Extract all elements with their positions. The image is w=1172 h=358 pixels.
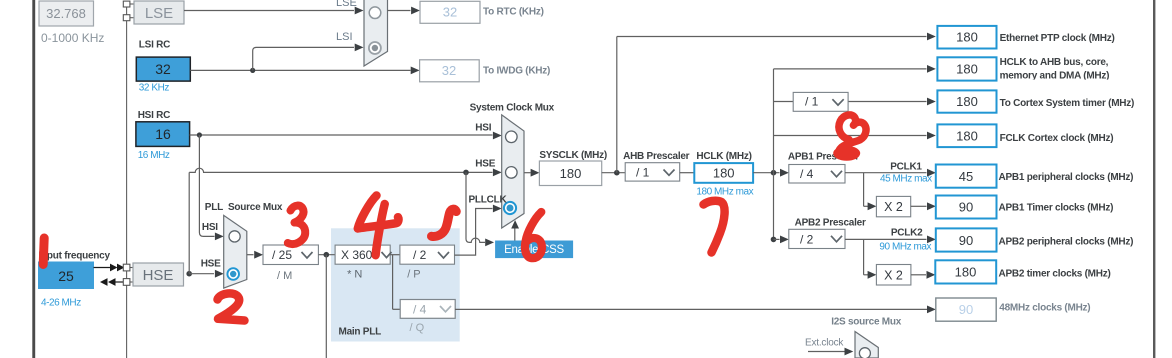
svg-text:X 2: X 2	[884, 268, 903, 282]
svg-text:Main PLL: Main PLL	[339, 327, 382, 338]
HSE box	[133, 263, 184, 286]
red annotation 4	[358, 196, 399, 256]
wire Ext.clock to I2S mux	[808, 348, 853, 356]
pin square OSC_IN	[123, 264, 130, 271]
svg-text:0-1000 KHz: 0-1000 KHz	[41, 31, 104, 45]
wire PLL mux to /M	[247, 251, 263, 259]
APB1 peripheral clocks box	[936, 165, 997, 188]
svg-text:X 2: X 2	[884, 200, 903, 214]
svg-text:32.768: 32.768	[46, 6, 86, 21]
wire *N to /P and down to /Q	[390, 255, 400, 310]
wire APB1 to PCLK1 box with X2 tap	[845, 169, 936, 210]
left panel border line	[32, 0, 35, 358]
svg-text:90 MHz max: 90 MHz max	[879, 242, 931, 253]
svg-text:APB2 timer clocks (MHz): APB2 timer clocks (MHz)	[999, 268, 1111, 279]
svg-text:32: 32	[442, 63, 456, 78]
svg-text:45: 45	[959, 169, 973, 184]
svg-text:/ 1: / 1	[636, 166, 650, 180]
svg-text:32: 32	[443, 5, 457, 20]
wire AHB to HCLK	[680, 172, 695, 174]
APB2 prescaler dropdown	[774, 229, 846, 248]
svg-text:HSI: HSI	[202, 222, 218, 233]
HSE input frequency box 25	[39, 262, 94, 289]
OSC_OUT double arrows	[100, 278, 123, 286]
PLL source mux	[224, 215, 247, 288]
wire LSE to RTC mux	[184, 7, 364, 15]
wire HCLK to APB1 with rail taps	[753, 69, 789, 242]
wire LSI RC output	[190, 44, 419, 75]
Main PLL panel	[331, 228, 460, 341]
svg-text:/ Q: / Q	[410, 322, 425, 334]
wire /M to *N with PLL feedback tap	[318, 252, 335, 358]
vertical pin rail wire	[126, 4, 128, 358]
svg-text:HCLK (MHz): HCLK (MHz)	[696, 151, 751, 162]
wire HSI to system clock mux	[190, 132, 502, 140]
pin square OSC32_OUT	[123, 15, 130, 21]
svg-text:PCLK1: PCLK1	[890, 161, 922, 172]
svg-text:I2S source Mux: I2S source Mux	[831, 317, 902, 328]
Enable CSS button	[495, 241, 573, 259]
To Cortex System timer box	[937, 90, 996, 112]
svg-text:PLLCLK: PLLCLK	[469, 195, 508, 206]
svg-text:HSE: HSE	[475, 159, 495, 170]
red annotation 8	[833, 115, 866, 161]
svg-text:90: 90	[959, 200, 973, 215]
wire SYSCLK to AHB prescaler with Ethernet tap	[602, 33, 936, 176]
I2S source mux	[855, 332, 878, 358]
svg-text:HSE: HSE	[201, 259, 221, 270]
arrow Enable CSS to mux	[511, 220, 519, 240]
svg-text:32: 32	[155, 61, 171, 77]
RTC clock mux	[364, 0, 388, 66]
svg-text:/ 2: / 2	[800, 232, 814, 246]
red annotation 6	[525, 212, 542, 258]
svg-text:/ 25: / 25	[272, 248, 292, 262]
svg-text:LSE: LSE	[145, 5, 173, 22]
svg-text:HSI RC: HSI RC	[138, 110, 170, 121]
svg-text:LSI RC: LSI RC	[139, 40, 170, 51]
wire HCLK-AHB bus row	[774, 65, 936, 73]
wire mux to SYSCLK	[524, 169, 539, 177]
APB1 timer multiplier X2	[876, 196, 910, 216]
SYSCLK value box	[539, 161, 601, 186]
wire HSI down to PLL mux (with hop over HSE wire)	[199, 135, 223, 240]
svg-text:APB2 peripheral clocks (MHz): APB2 peripheral clocks (MHz)	[999, 236, 1134, 247]
red annotation 1	[43, 238, 44, 265]
wire HSE to PLL source mux	[189, 270, 224, 278]
wire pin stubs to LSE	[130, 4, 134, 18]
svg-text:To RTC (KHz): To RTC (KHz)	[483, 7, 544, 18]
*N multiplier dropdown	[335, 245, 391, 264]
red annotation 7	[704, 201, 725, 253]
wire CSS monitor from HSE line to Enable CSS (hop over PLLCLK wire)	[463, 170, 494, 247]
svg-text:HSI: HSI	[475, 123, 491, 134]
HSI RC box 16	[136, 122, 190, 147]
svg-text:/ P: / P	[407, 269, 420, 281]
svg-text:/ 2: / 2	[413, 248, 427, 262]
svg-text:To Cortex System timer (MHz): To Cortex System timer (MHz)	[1000, 98, 1135, 109]
svg-text:16: 16	[155, 126, 171, 142]
wire FCLK row	[774, 132, 936, 140]
svg-text:APB1 peripheral clocks (MHz): APB1 peripheral clocks (MHz)	[999, 172, 1134, 183]
svg-text:45 MHz max: 45 MHz max	[880, 173, 932, 184]
svg-text:180 MHz max: 180 MHz max	[696, 186, 753, 197]
LSE box	[134, 1, 184, 24]
OSC_IN double arrows	[94, 264, 125, 272]
To RTC value box	[420, 1, 480, 23]
svg-text:16 MHz: 16 MHz	[138, 150, 170, 161]
svg-text:PLL Source Mux: PLL Source Mux	[205, 202, 283, 213]
svg-text:* N: * N	[347, 269, 362, 281]
red annotation 2	[218, 293, 245, 320]
48MHz clocks box (disabled)	[936, 298, 996, 321]
wire mux to RTC box	[388, 7, 420, 15]
APB2 peripheral clocks box	[936, 228, 997, 251]
APB2 timer clocks box	[935, 260, 996, 283]
/P divider dropdown	[400, 245, 455, 264]
svg-text:PCLK2: PCLK2	[891, 227, 923, 238]
APB2 timer multiplier X2	[876, 265, 911, 286]
svg-text:180: 180	[713, 166, 735, 181]
Cortex timer prescaler dropdown	[793, 92, 848, 111]
svg-text:/ M: / M	[277, 270, 292, 282]
wire HSE up and to system clock mux	[186, 168, 501, 276]
LSE frequency input box 32.768	[39, 1, 94, 26]
svg-text:180: 180	[956, 94, 978, 109]
svg-text:180: 180	[956, 30, 978, 45]
/M divider dropdown	[263, 245, 318, 265]
svg-text:To IWDG (KHz): To IWDG (KHz)	[483, 66, 550, 77]
APB1 Timer clocks box	[936, 196, 997, 219]
right panel border line	[1153, 0, 1155, 358]
To IWDG value box	[420, 60, 480, 82]
wire /Q to 48MHz clocks	[455, 306, 936, 314]
svg-text:/ 4: / 4	[800, 167, 814, 181]
svg-text:/ 4: / 4	[413, 303, 427, 317]
wire X2 to APB2 timer box	[911, 271, 935, 279]
wire /P to PLLCLK input	[455, 205, 502, 256]
svg-text:SYSCLK (MHz): SYSCLK (MHz)	[539, 150, 607, 161]
FCLK Cortex clock box	[937, 124, 996, 147]
svg-text:180: 180	[560, 166, 582, 181]
APB1 prescaler dropdown	[789, 165, 845, 184]
svg-text:AHB Prescaler: AHB Prescaler	[623, 151, 690, 162]
wire to Cortex prescaler row	[774, 98, 936, 106]
svg-text:APB2 Prescaler: APB2 Prescaler	[795, 218, 866, 229]
svg-text:LSE: LSE	[336, 0, 357, 9]
svg-text:180: 180	[956, 129, 978, 144]
svg-text:X 360: X 360	[341, 248, 373, 262]
svg-text:Ext.clock: Ext.clock	[805, 338, 844, 349]
svg-text:180: 180	[956, 62, 978, 77]
svg-text:FCLK Cortex clock (MHz): FCLK Cortex clock (MHz)	[1000, 133, 1114, 144]
svg-text:Input frequency: Input frequency	[39, 251, 111, 262]
svg-text:25: 25	[58, 268, 74, 284]
svg-text:48MHz clocks (MHz): 48MHz clocks (MHz)	[999, 302, 1090, 313]
HCLK to AHB box	[937, 57, 996, 80]
HCLK value box	[694, 163, 753, 183]
wire pin stubs to HSE	[130, 268, 133, 283]
/Q divider dropdown (disabled)	[400, 300, 455, 319]
svg-text:4-26 MHz: 4-26 MHz	[41, 298, 81, 309]
wire APB2 to PCLK2 box with X2 tap	[845, 236, 936, 279]
LSI RC box 32	[136, 57, 190, 81]
svg-text:LSI: LSI	[336, 31, 353, 43]
svg-text:HSE: HSE	[143, 267, 174, 284]
svg-text:System Clock Mux: System Clock Mux	[470, 103, 555, 114]
pin square OSC_OUT	[123, 279, 130, 286]
svg-text:APB1 Timer clocks (MHz): APB1 Timer clocks (MHz)	[999, 203, 1114, 214]
AHB prescaler dropdown	[625, 163, 680, 181]
svg-text:180: 180	[955, 265, 977, 280]
Ethernet PTP clock box	[937, 26, 996, 49]
pin square OSC32_IN	[123, 1, 130, 7]
svg-text:32 KHz: 32 KHz	[139, 83, 170, 94]
svg-text:/ 1: / 1	[805, 95, 819, 109]
svg-text:90: 90	[959, 302, 973, 317]
red annotation 3	[288, 206, 305, 245]
svg-text:90: 90	[959, 233, 973, 248]
system clock mux	[502, 115, 524, 228]
red annotation 5	[432, 209, 457, 236]
label HCLK to AHB bus, core, memory and DMA (MHz)	[998, 57, 1138, 82]
svg-text:HCLK to AHB bus, core,: HCLK to AHB bus, core,	[1000, 57, 1109, 68]
wire X2 to APB1 timer box	[911, 202, 936, 210]
svg-text:Ethernet PTP clock (MHz): Ethernet PTP clock (MHz)	[1000, 33, 1115, 44]
